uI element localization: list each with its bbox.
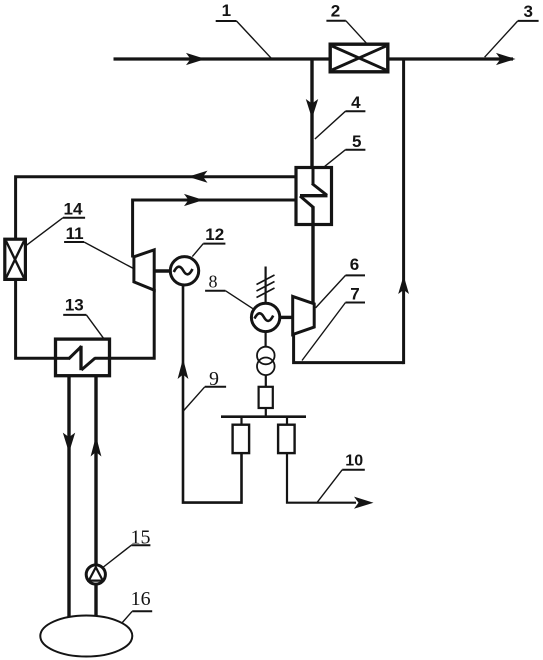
wire: electric line 9 from generator 12 down and to busbar load: [183, 285, 242, 503]
wire: turbine 6 exhaust (line 7) to return riser: [294, 334, 404, 363]
svg-text:1: 1: [222, 1, 231, 20]
svg-text:2: 2: [331, 2, 340, 21]
heat exchanger 5 (box): [296, 168, 332, 225]
wire: breaker to busbar: [265, 408, 267, 417]
flow arrow right on main pipeline: [186, 53, 206, 65]
generator 8 (circle with sine): [251, 303, 279, 331]
wire: cooling water return pipe (up to 13, right): [94, 376, 97, 566]
label 12 leader: [203, 243, 225, 245]
label 16 leader: [132, 610, 152, 612]
wire: generator 8 to transformer: [265, 332, 267, 347]
flow arrow down on line 4: [306, 99, 318, 119]
transformer (two overlapping circles): [257, 347, 275, 365]
right feeder stub: [286, 417, 288, 425]
wire: grid connection line above generator 8: [265, 267, 267, 304]
shaft: turbine 11 to generator 12: [154, 269, 170, 272]
svg-text:14: 14: [64, 199, 83, 218]
label 8 leader: [205, 290, 225, 292]
wire: loop line B (to turbine 11 inlet): [133, 200, 296, 258]
reservoir 16 (ellipse): [40, 616, 132, 657]
label 11 leader: [64, 241, 84, 243]
turbine 6 (expander trapezoid): [293, 296, 315, 334]
flow arrow down on left water pipe: [63, 433, 75, 453]
heat exchanger 13 (box): [56, 339, 110, 376]
pump 15 (circle with triangle): [86, 565, 105, 584]
wire: cooling water supply pipe (down from 13, left): [67, 376, 70, 617]
element 14 (crossed-box cooler): [5, 239, 26, 279]
svg-text:4: 4: [351, 93, 361, 112]
label 13 leader: [63, 314, 86, 316]
wire: main pipeline left segment: [114, 57, 332, 60]
three-phase slash 2: [257, 282, 275, 292]
svg-text:9: 9: [209, 368, 219, 390]
shaft: generator 8 to turbine 6: [280, 316, 293, 319]
flow arrow right at pipeline outlet (line 3): [496, 53, 516, 65]
left load resistor box: [233, 425, 250, 453]
label 10 leader: [342, 469, 365, 471]
flow arrow up on right water pipe: [91, 436, 102, 457]
svg-text:11: 11: [66, 224, 84, 243]
flow arrow left on line A: [188, 171, 208, 183]
right load resistor box: [278, 425, 295, 453]
busbar: [221, 415, 306, 418]
svg-text:12: 12: [205, 225, 224, 244]
label 7 leader: [346, 302, 366, 304]
svg-text:3: 3: [523, 2, 532, 21]
wire: return riser up to main pipeline: [402, 59, 405, 364]
label 2 leader: [326, 20, 345, 22]
label 15 leader: [131, 544, 150, 546]
label 4 leader: [346, 110, 366, 112]
heat exchanger 5 coil (zigzag): [300, 166, 328, 208]
svg-text:6: 6: [350, 255, 359, 274]
flow arrow right on line 10: [354, 497, 374, 509]
svg-text:7: 7: [350, 285, 359, 304]
label 14 leader: [63, 217, 85, 219]
flow arrow right on line B: [184, 194, 204, 206]
wire: left loop down from 14 to exchanger 13: [16, 279, 56, 358]
flow arrow up on line 9: [178, 359, 189, 380]
svg-text:10: 10: [345, 453, 363, 470]
turbine 11 (expander trapezoid): [134, 250, 154, 290]
label 1 leader: [216, 20, 237, 22]
svg-text:13: 13: [65, 295, 84, 314]
wire: line 10 from right load out to consumer: [287, 453, 356, 503]
svg-text:16: 16: [131, 588, 151, 610]
wire: main pipeline right segment: [387, 57, 513, 60]
valve 2 (crossed-box throttle valve): [330, 44, 388, 72]
heat exchanger 13 coil (zigzag): [56, 346, 96, 370]
wire: heated loop line A (exchanger 5 to element 14): [16, 177, 296, 241]
svg-text:5: 5: [352, 132, 361, 151]
left feeder stub: [240, 417, 242, 425]
three-phase slash 3: [257, 288, 275, 298]
exchanger 13 outlet wire: turbine 11 exhaust down to exchanger 13: [95, 289, 155, 358]
svg-text:8: 8: [209, 272, 218, 292]
label 5 leader: [346, 149, 366, 151]
wire: bypass branch line 4 (down to heat exchanger 5): [310, 60, 313, 168]
wire: transformer to breaker: [265, 375, 267, 387]
generator 12 (circle with sine): [170, 257, 198, 285]
wire: gas line from exchanger 5 down to turbine 6 inlet: [311, 207, 314, 306]
three-phase slash 1: [257, 275, 275, 285]
label 9 leader: [205, 386, 226, 388]
label 6 leader: [346, 274, 366, 276]
breaker box: [259, 387, 273, 408]
label 3 leader: [518, 20, 539, 22]
flow arrow up on return riser: [398, 276, 409, 295]
svg-text:15: 15: [131, 527, 151, 549]
